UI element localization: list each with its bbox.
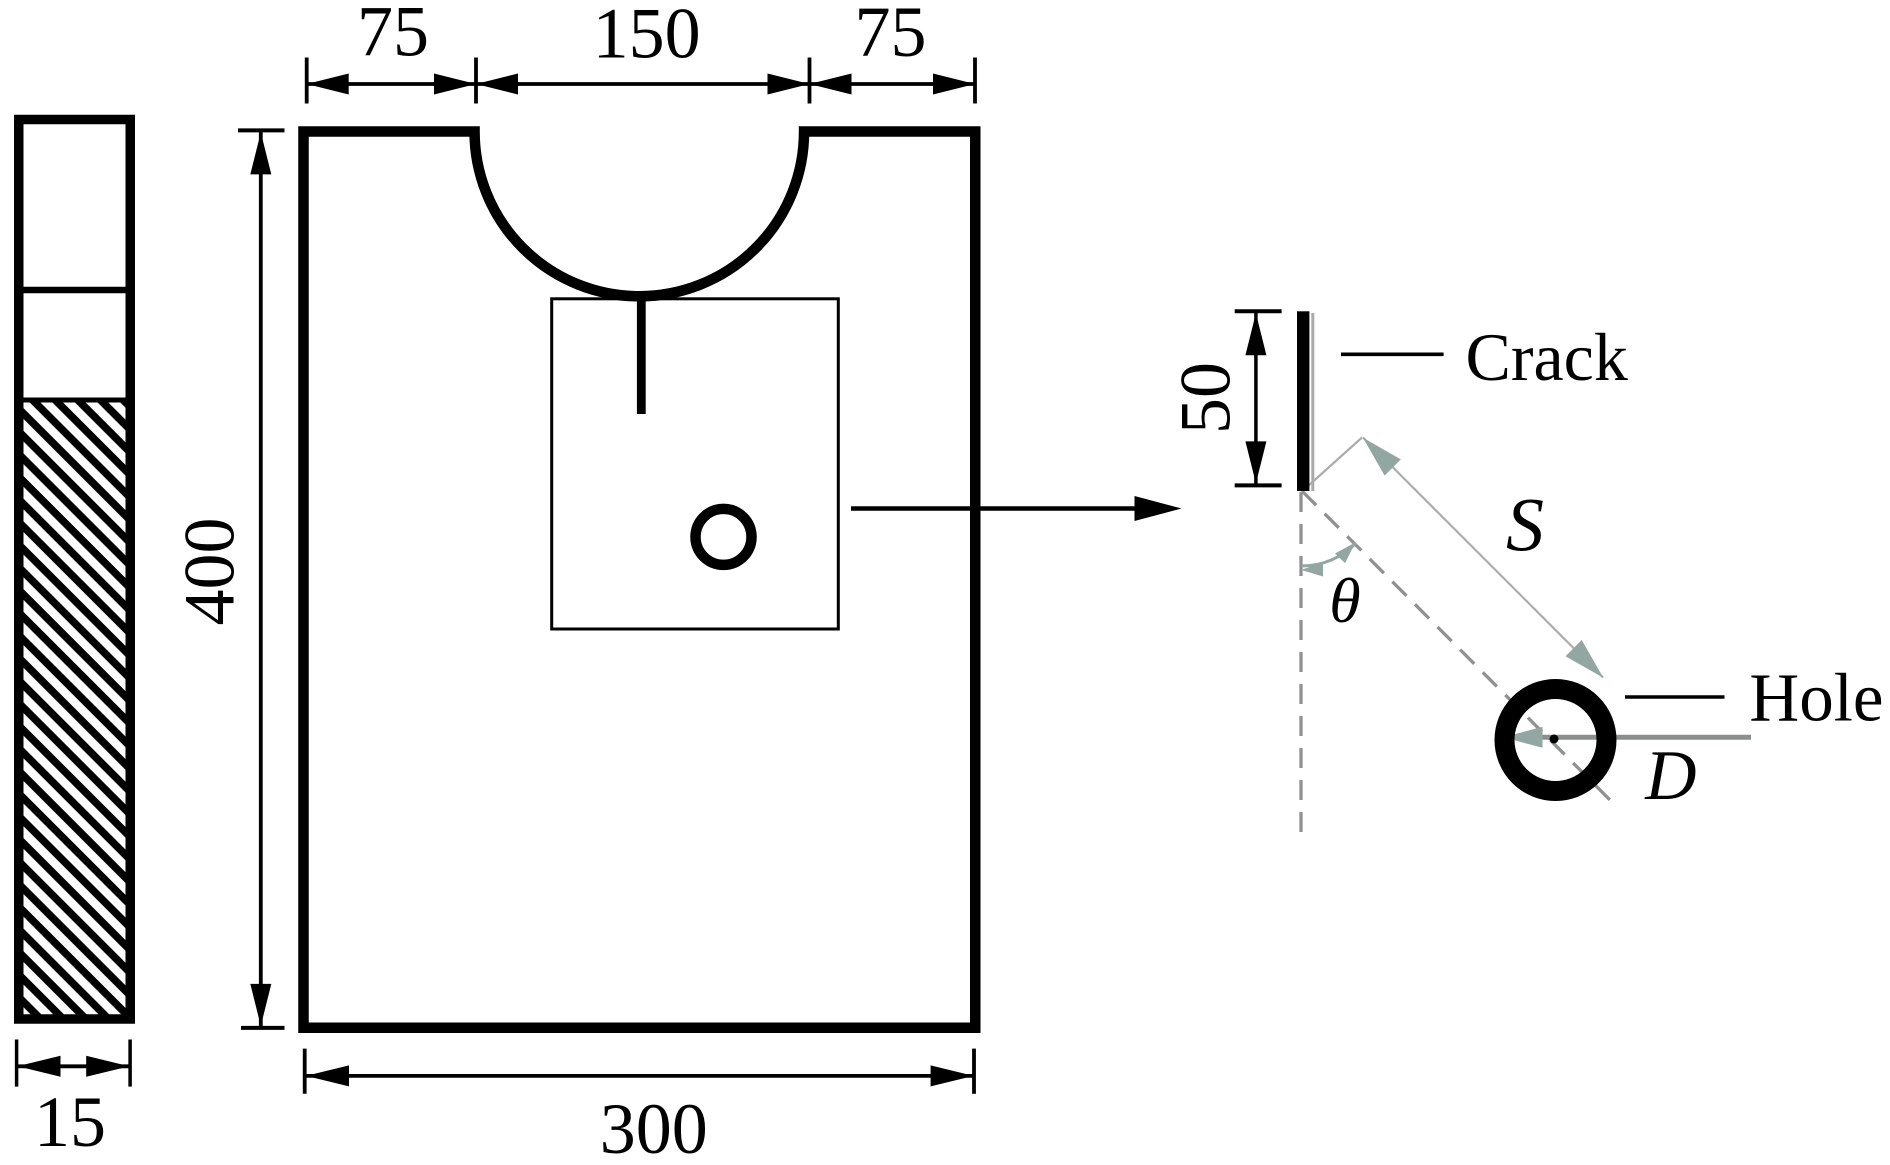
detail: D dimension line <box>1504 735 1751 740</box>
svg-text:D: D <box>1644 737 1696 815</box>
detail: hole leader line <box>1625 695 1725 698</box>
crack line in plate <box>637 300 646 414</box>
detail: S dimension line <box>1363 438 1603 678</box>
dimension 50: bottom arrow <box>1245 441 1266 483</box>
svg-text:S: S <box>1506 483 1544 567</box>
dimension 15: left tick <box>15 1040 19 1087</box>
svg-text:75: 75 <box>357 0 429 72</box>
top dimension tick 1 <box>305 58 309 104</box>
detail: diagonal dashed reference line <box>1302 491 1614 804</box>
detail: crack bar shadow <box>1311 313 1314 491</box>
svg-text:Hole: Hole <box>1749 659 1883 735</box>
dimension 15: right tick <box>128 1040 132 1087</box>
svg-text:400: 400 <box>170 518 250 626</box>
top dimension tick 3 <box>808 58 812 104</box>
dimension 400: bottom arrow <box>250 984 271 1026</box>
svg-text:Crack: Crack <box>1466 319 1628 395</box>
detail: vertical dashed reference line <box>1299 492 1302 834</box>
dimension 15: line <box>17 1064 130 1068</box>
top dim arrow right-pointing at tick2 <box>434 74 476 95</box>
svg-text:θ: θ <box>1329 565 1360 636</box>
dimension 50: bottom tick <box>1235 483 1282 487</box>
top dim arrow left-pointing at tick3 <box>810 74 852 95</box>
dimension 15: left arrow <box>18 1056 61 1077</box>
top dimension tick 4 <box>973 58 977 104</box>
detail: S extension line from crack tip <box>1303 438 1362 491</box>
dimension 300: right arrow <box>931 1065 974 1086</box>
svg-text:15: 15 <box>34 1082 106 1162</box>
top dim arrow left-pointing at tick1 <box>307 74 349 95</box>
side-view bar divider line upper <box>24 287 126 294</box>
detail: theta arc arrow at diagonal <box>1335 543 1355 564</box>
svg-text:75: 75 <box>855 0 927 72</box>
detail: S arrow lower <box>1566 640 1604 678</box>
arrow from detail box to detail view: line <box>851 506 1136 511</box>
detail: S arrow upper <box>1363 438 1401 476</box>
side-view bar hatch boundary line <box>24 398 126 403</box>
dimension 300: left arrow <box>306 1065 349 1086</box>
svg-text:150: 150 <box>593 0 701 73</box>
dimension 400: top arrow <box>250 132 271 174</box>
dimension 300: left tick <box>303 1049 307 1094</box>
detail: theta arc <box>1301 543 1356 566</box>
detail: crack bar <box>1297 311 1309 491</box>
detail: crack leader line <box>1341 352 1444 356</box>
detail: hole ring <box>1505 689 1607 791</box>
svg-text:50: 50 <box>1165 362 1245 434</box>
dimension 50: top tick <box>1235 309 1282 313</box>
side-view bar hatch fill <box>24 402 126 1015</box>
dimension 300: right tick <box>972 1049 976 1094</box>
dimension 300: line <box>306 1074 973 1078</box>
top dim arrow left-pointing at tick2 <box>476 74 518 95</box>
dimension 400: top tick <box>238 128 285 132</box>
detail: theta arc arrow at vertical <box>1301 563 1323 577</box>
svg-text:300: 300 <box>600 1089 708 1165</box>
main plate outline with notch <box>304 132 976 1028</box>
arrow from detail box to detail view: head <box>1135 496 1182 521</box>
hole in plate <box>696 509 752 565</box>
inner detail rectangle <box>552 299 839 629</box>
side-view bar outline <box>19 120 131 1020</box>
dimension 50: top arrow <box>1245 313 1266 355</box>
top dimension tick 2 <box>474 58 478 104</box>
top dim arrow right-pointing at tick4 <box>933 74 975 95</box>
detail: D arrow <box>1504 727 1543 748</box>
dimension 400: bottom tick <box>241 1026 285 1030</box>
dimension 400: line <box>259 132 263 1026</box>
dimension 15: right arrow <box>86 1056 129 1077</box>
top dimension line <box>307 82 975 86</box>
detail: hole center dot <box>1550 735 1559 744</box>
top dim arrow right-pointing at tick3 <box>768 74 810 95</box>
dimension 50: line <box>1254 313 1258 484</box>
